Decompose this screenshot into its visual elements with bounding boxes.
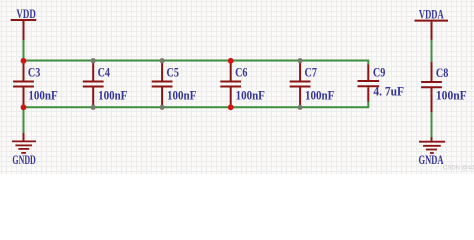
svg-text:GNDA: GNDA xyxy=(419,152,444,167)
svg-text:100nF: 100nF xyxy=(305,88,334,103)
svg-text:CSDN @4JQ0: CSDN @4JQ0 xyxy=(443,166,474,172)
svg-text:100nF: 100nF xyxy=(167,88,196,103)
svg-text:VDD: VDD xyxy=(16,6,35,21)
svg-text:C6: C6 xyxy=(235,65,248,80)
svg-text:C7: C7 xyxy=(305,65,318,80)
svg-text:C4: C4 xyxy=(98,65,111,80)
svg-text:100nF: 100nF xyxy=(28,88,57,103)
svg-text:VDDA: VDDA xyxy=(419,6,444,21)
svg-text:C9: C9 xyxy=(373,65,386,80)
svg-text:100nF: 100nF xyxy=(436,88,467,103)
svg-text:GNDD: GNDD xyxy=(12,152,35,167)
svg-text:C8: C8 xyxy=(436,65,449,80)
svg-text:C3: C3 xyxy=(28,65,41,80)
svg-text:4. 7uF: 4. 7uF xyxy=(373,84,404,99)
svg-text:100nF: 100nF xyxy=(98,88,127,103)
svg-text:100nF: 100nF xyxy=(236,88,265,103)
svg-text:C5: C5 xyxy=(167,65,180,80)
